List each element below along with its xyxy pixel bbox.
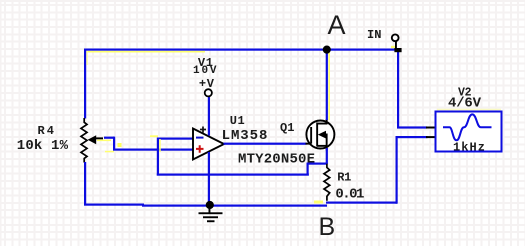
wire opamp output to Q1 gate xyxy=(224,143,307,145)
svg-text:Q1: Q1 xyxy=(280,121,295,135)
wire IN node down to V2 plus xyxy=(397,50,436,129)
wire left rail lower xyxy=(84,162,86,206)
svg-text:R4: R4 xyxy=(38,124,55,138)
junction dot ground net xyxy=(206,201,214,209)
svg-text:B: B xyxy=(319,213,336,241)
wire top rail (net A) xyxy=(84,49,398,53)
svg-text:R1: R1 xyxy=(337,170,351,184)
wire Q1 source to R1 xyxy=(326,148,328,164)
junction node IN xyxy=(391,41,402,52)
wire V1 terminal to opamp V+ xyxy=(208,97,210,136)
ground xyxy=(199,205,223,222)
wire opamp V- to ground rail xyxy=(208,152,210,205)
svg-text:A: A xyxy=(328,10,346,40)
resistor R4 (potentiometer) xyxy=(81,118,87,163)
junction dot node A xyxy=(323,46,331,54)
power terminal V1 +V xyxy=(205,89,212,96)
svg-text:+V: +V xyxy=(199,77,215,91)
wire bottom rail (ground net) xyxy=(84,204,327,207)
wire drain to top rail (net A) xyxy=(326,50,330,120)
svg-text:10k 1%: 10k 1% xyxy=(17,138,69,154)
transistor Q1 (MOSFET) xyxy=(306,119,335,151)
wire left rail upper xyxy=(84,49,86,119)
svg-text:U1: U1 xyxy=(230,114,245,128)
svg-text:10V: 10V xyxy=(193,65,217,77)
R4 wiper arrow xyxy=(88,135,103,144)
resistor R1 xyxy=(324,164,330,201)
wire R1 bottom to V2 minus xyxy=(314,136,436,204)
op-amp U1 xyxy=(193,127,224,160)
svg-text:IN: IN xyxy=(367,28,382,42)
terminal circle IN xyxy=(392,34,399,41)
wire R4 wiper to opamp noninverting input xyxy=(97,137,193,153)
svg-text:4/6V: 4/6V xyxy=(448,95,482,111)
svg-text:LM358: LM358 xyxy=(222,128,268,144)
svg-text:1kHz: 1kHz xyxy=(453,140,485,154)
source V2 xyxy=(436,109,502,152)
wire feedback: opamp inverting input loop xyxy=(150,135,328,175)
svg-text:MTY20N50E: MTY20N50E xyxy=(238,152,315,168)
svg-text:0.01: 0.01 xyxy=(335,186,364,202)
